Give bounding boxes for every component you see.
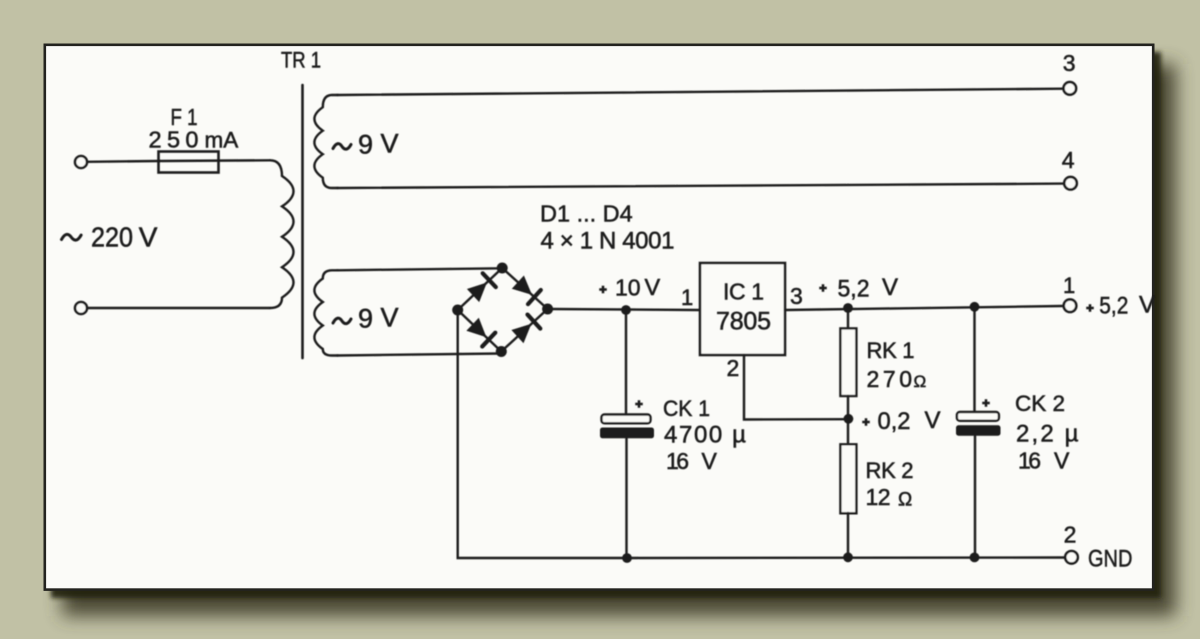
node CK1 ground [622,553,632,563]
svg-text:D1 ... D4: D1 ... D4 [540,201,633,227]
wire mains-bottom to primary [87,307,270,309]
svg-text:V: V [381,129,399,159]
diode D1 [467,283,487,303]
wire mains-top to fuse [87,160,160,163]
plus mark 10V [599,286,607,294]
svg-text:V: V [1139,292,1155,319]
winding TR1 secondary 1 [314,95,338,188]
card drop shadow inner [51,52,1161,598]
bridge node top [497,263,508,274]
diode D2 [512,276,532,295]
node +0,2V [844,414,854,424]
terminal 4 [1064,177,1077,190]
bridge edge B-R [501,309,547,352]
svg-text:V: V [645,274,661,300]
tilde 9V top [333,144,351,149]
wire 0,2V node to RK2 [847,419,849,445]
svg-text:220: 220 [91,222,133,253]
svg-text:RK 1: RK 1 [867,338,915,363]
svg-text:16: 16 [1018,447,1041,473]
svg-text:1: 1 [681,285,693,310]
terminal mains bottom [75,302,87,314]
svg-text:4 × 1 N 4001: 4 × 1 N 4001 [541,227,675,254]
svg-text:4: 4 [1062,147,1075,173]
wire secondary2 to bridge AC bottom [337,354,501,356]
wire through fuse to primary corner [160,159,270,162]
wire RK1 to 0,2V node [847,396,849,419]
wire CK1 to ground rail [625,437,627,558]
svg-text:2,2 µ: 2,2 µ [1016,421,1079,448]
svg-text:250: 250 [149,127,199,153]
wire +10V node down to CK1 [625,310,627,415]
svg-text:0,2: 0,2 [878,408,911,435]
bridge node right [542,304,553,315]
svg-text:CK 1: CK 1 [663,396,710,421]
svg-text:V: V [882,274,898,301]
svg-text:7805: 7805 [716,307,771,335]
diode D3 cathode bar [482,333,495,347]
terminal 3 [1064,82,1077,95]
tilde 9V bottom [333,318,351,323]
bridge edge L-T [458,268,503,310]
ground rail [627,556,1065,559]
diode D3 [466,318,486,338]
svg-text:9: 9 [358,130,373,160]
node CK2 ground [970,553,980,563]
svg-text:V: V [925,407,941,434]
bridge node left [452,305,463,316]
white schematic card [45,45,1153,590]
plus mark CK2 [982,399,990,407]
transformer core TR1 [301,85,304,358]
wire secondary2 to bridge AC top [337,268,502,270]
svg-text:TR 1: TR 1 [281,48,321,73]
svg-text:4700 µ: 4700 µ [664,422,746,449]
node +10V [621,305,631,315]
resistor RK1 body [840,328,856,396]
wire CK2 node down [973,307,975,412]
wire RK2 to ground rail [847,513,849,558]
plus mark CK1 [635,400,643,408]
bridge node bottom [496,346,507,357]
fuse F1 body [159,152,219,173]
svg-text:3: 3 [790,283,803,309]
wire primary top corner + winding TR1 primary [270,160,294,308]
wire bridge minus down to ground rail [458,310,627,558]
svg-text:V: V [702,448,718,474]
svg-text:2: 2 [727,355,740,381]
capacitor CK2 minus plate [957,426,1001,435]
svg-text:mA: mA [205,128,239,153]
svg-text:3: 3 [1063,50,1076,76]
node CK2 top [970,302,980,312]
diode D4 cathode bar [528,315,541,329]
terminal 1 [1064,299,1077,312]
svg-text:2: 2 [1064,522,1077,548]
svg-text:GND: GND [1088,546,1132,573]
wire IC1 pin3 to terminal 1 [785,306,1063,310]
wire IC1 pin2 down and right to 0,2V node [744,355,848,420]
IC1 box [700,263,785,355]
capacitor CK2 plus plate [957,412,999,421]
plus mark 0,2V [862,418,870,426]
svg-text:V: V [1054,447,1070,473]
node +5,2V [843,303,853,313]
wire secondary1 to terminal 3 [337,89,1063,95]
svg-text:IC 1: IC 1 [723,279,764,305]
svg-text:5,2: 5,2 [1099,293,1128,320]
wire node to RK1 [847,308,849,329]
terminal mains top [75,156,87,168]
svg-text:270: 270 [867,366,913,392]
capacitor CK1 plus plate [602,415,651,424]
svg-text:16: 16 [666,448,689,474]
svg-text:Ω: Ω [914,372,927,391]
terminal 2 [1065,551,1078,564]
wire secondary1 to terminal 4 [337,184,1064,188]
svg-text:12: 12 [866,484,891,510]
plus mark 5,2V ic [819,284,827,292]
svg-text:V: V [381,303,399,333]
winding TR1 secondary 2 [314,270,338,355]
svg-text:10: 10 [615,275,641,301]
svg-text:1: 1 [1063,273,1075,298]
diode D4 [511,324,531,344]
node RK2 ground [843,552,853,562]
plus mark out 5,2V [1086,304,1094,312]
capacitor CK1 minus plate [601,428,654,438]
svg-text:RK 2: RK 2 [866,458,914,483]
svg-text:V: V [139,222,158,253]
resistor RK2 body [840,444,856,513]
bridge edge L-B [458,310,502,352]
tilde 220V [62,234,82,240]
bridge edge T-R [502,268,547,309]
diode D1 cathode bar [483,273,496,287]
svg-text:9: 9 [358,304,373,334]
svg-text:5,2: 5,2 [838,276,870,303]
diode D2 cathode bar [528,290,541,304]
svg-text:CK 2: CK 2 [1015,391,1065,416]
wire bridge plus to IC1 pin1 [548,309,700,310]
svg-text:Ω: Ω [898,489,912,510]
wire CK2 to ground rail [974,435,976,558]
